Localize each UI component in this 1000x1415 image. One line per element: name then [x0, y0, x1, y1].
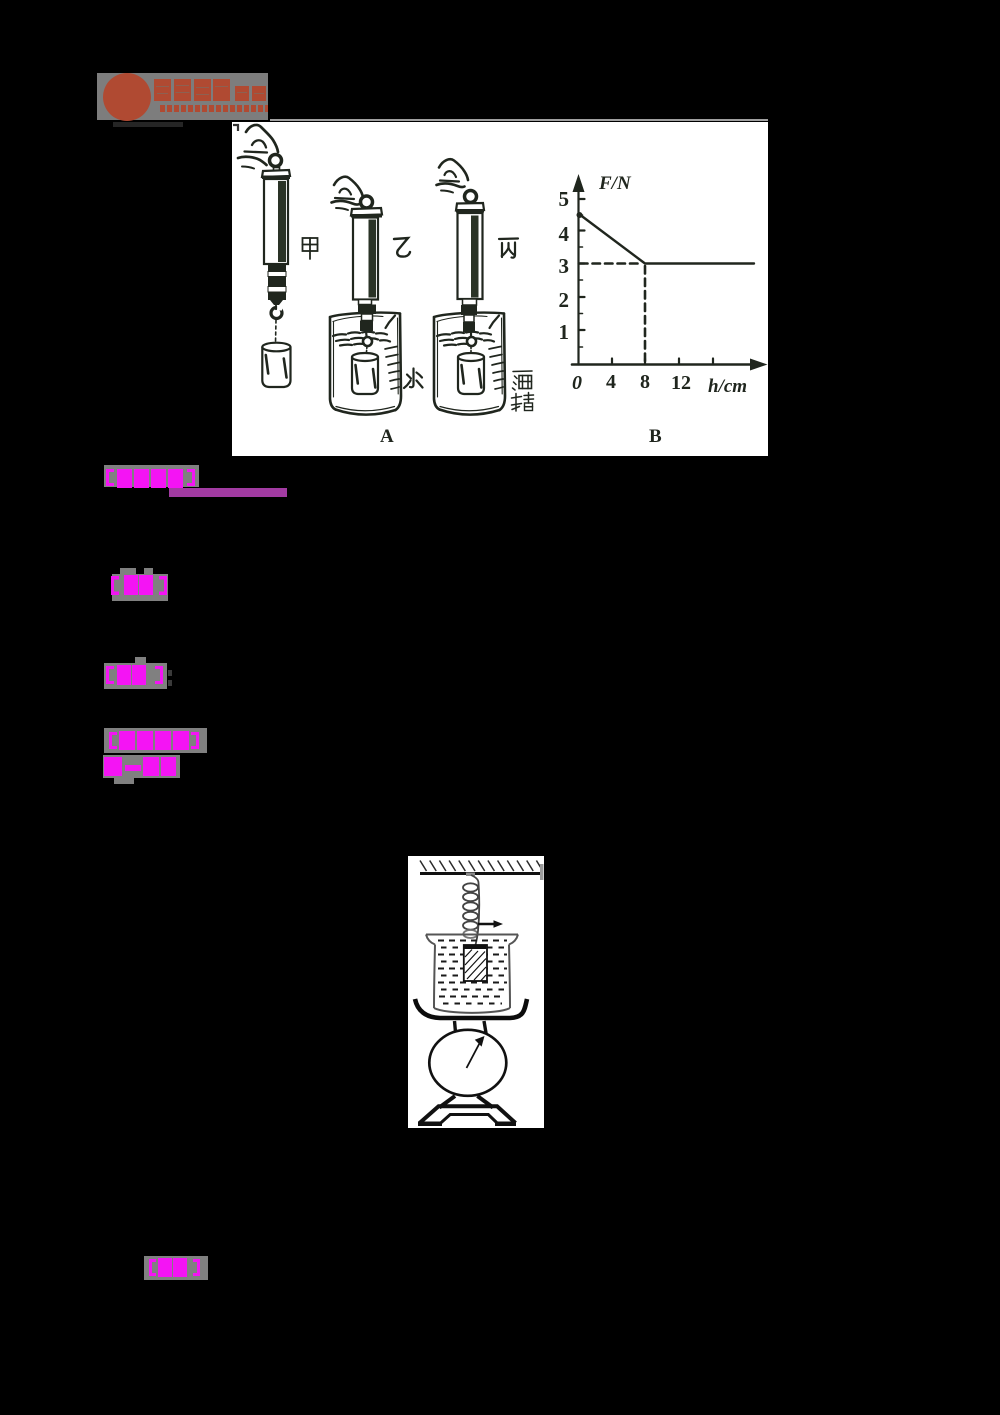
logo gray background: [97, 73, 268, 120]
arrow right: [478, 923, 495, 926]
dial: [429, 1030, 506, 1096]
graph x-axis: [572, 363, 754, 366]
ring jia: [270, 155, 282, 167]
svg-text:A: A: [380, 426, 394, 447]
scale dish: [415, 999, 527, 1018]
string jia: [275, 320, 278, 343]
ceiling line: [420, 872, 542, 875]
svg-text:5: 5: [559, 187, 570, 211]
svg-text:8: 8: [640, 371, 650, 393]
scan corner mark: [233, 125, 238, 131]
label jia: [303, 238, 318, 259]
logo title char 3: [194, 79, 211, 101]
beaker walls: [434, 945, 435, 1009]
graph y labels: [559, 187, 570, 344]
label shui: [404, 369, 423, 389]
logo url text: [160, 105, 268, 112]
spring: [463, 875, 479, 945]
figure 1: spring scales experiment: [232, 122, 768, 456]
liquid dashes: [438, 941, 507, 1004]
svg-text:0: 0: [572, 372, 582, 394]
weight bing: [458, 357, 484, 394]
stand legs: [439, 1096, 455, 1108]
graph x labels: [572, 371, 691, 394]
logo title char 1: [154, 79, 171, 101]
beaker alcohol: [434, 313, 505, 415]
hand yi: [332, 177, 364, 210]
svg-text:4: 4: [606, 371, 616, 393]
base inner: [441, 1115, 497, 1124]
beaker water: [330, 313, 401, 415]
weight yi: [352, 357, 378, 394]
ring bing: [465, 191, 477, 203]
hook ring yi: [363, 337, 372, 346]
logo small char 2: [252, 86, 266, 101]
cap jia: [262, 170, 290, 177]
faint title ghost under logo: [113, 122, 183, 127]
label 1 gray highlight + magenta 思路点拨: [100, 460, 300, 500]
svg-text:F/N: F/N: [598, 173, 632, 194]
scale neck: [455, 1021, 456, 1032]
rod yi: [359, 300, 372, 305]
logo title char 2: [174, 79, 191, 101]
label 5 【答案】 bottom: [140, 1250, 220, 1290]
logo red circle: [103, 73, 151, 121]
svg-text:4: 4: [559, 222, 570, 246]
hand bing: [437, 159, 469, 192]
body jia: [264, 179, 288, 264]
logo block (school logo on gray): [95, 60, 273, 130]
logo small char 1: [235, 86, 249, 101]
base feet: [418, 1122, 442, 1127]
ring yi: [361, 196, 373, 208]
svg-text:3: 3: [559, 254, 570, 278]
graph data line: [579, 214, 754, 264]
graph y ticks: [579, 199, 585, 330]
label bing: [499, 239, 518, 258]
needle: [467, 1041, 482, 1069]
label yi: [394, 238, 410, 257]
svg-text:2: 2: [559, 288, 570, 312]
graph y-axis: [577, 179, 579, 365]
base outer: [420, 1106, 516, 1123]
logo title char 4: [213, 79, 230, 101]
svg-text:B: B: [649, 426, 662, 447]
hook jia: [271, 308, 282, 319]
svg-text:12: 12: [671, 372, 691, 394]
magenta underline: [169, 488, 287, 497]
beaker bottom: [434, 1008, 510, 1013]
graph x ticks: [612, 359, 713, 365]
figure 2: spring + beaker on platform scale: [408, 856, 544, 1128]
graph dashed lines: [580, 262, 642, 265]
body yi: [353, 218, 378, 300]
label jiu jing: [512, 371, 534, 411]
svg-text:h/cm: h/cm: [708, 376, 747, 397]
beaker rim: [426, 935, 518, 1013]
svg-text:1: 1: [559, 320, 570, 344]
label 4 【基础升华】 + 举一反三: [100, 723, 230, 791]
weight jia: [262, 347, 290, 387]
body bing: [458, 213, 483, 299]
hand jia: [238, 125, 278, 169]
rod bing: [463, 299, 477, 305]
spring attach mark: [466, 873, 475, 877]
header rule: [270, 119, 768, 121]
ceiling hatching: [420, 861, 541, 872]
cap yi: [351, 208, 382, 216]
label 2 【答案】: [105, 565, 185, 610]
hatched block: [464, 945, 487, 981]
cap bing: [456, 203, 484, 211]
label 3 【解析】: [100, 656, 190, 694]
hook ring bing: [467, 337, 476, 346]
plunger stripes jia: [268, 264, 286, 305]
